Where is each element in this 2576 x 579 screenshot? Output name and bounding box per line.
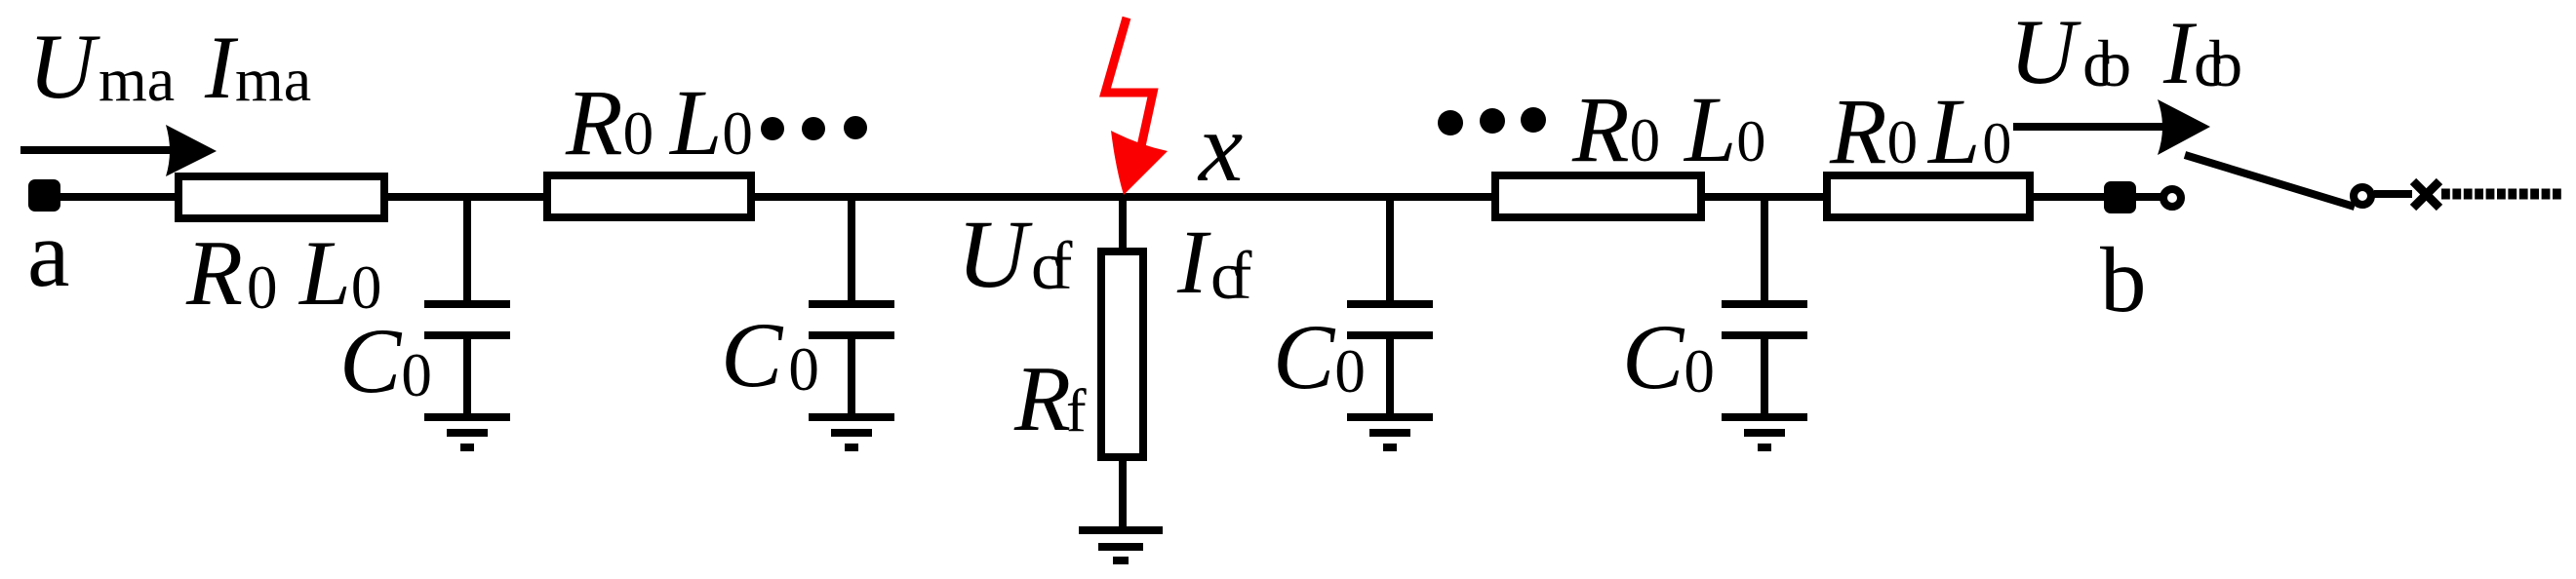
- svg-text:x: x: [1197, 93, 1243, 203]
- wire R1 to R2: [382, 193, 549, 201]
- ground Gf: [1079, 530, 1163, 560]
- switch throw circle (right): [2354, 187, 2371, 205]
- svg-text:ma: ma: [99, 45, 175, 114]
- svg-text:a: a: [27, 202, 70, 307]
- svg-text:C0: C0: [339, 309, 432, 412]
- wire Rf to ground: [1119, 453, 1127, 530]
- capacitor C4: [1722, 193, 1807, 417]
- switch blade: [2185, 155, 2355, 207]
- dashed line to edge: [2441, 189, 2562, 200]
- resistor R0L0 #4: [1827, 175, 2030, 217]
- svg-text:C0: C0: [1622, 305, 1715, 408]
- ellipsis dots left: [761, 116, 867, 140]
- svg-text:U: U: [957, 200, 1033, 308]
- terminal b: [2104, 181, 2136, 213]
- svg-text:L0: L0: [1683, 77, 1765, 181]
- wire b to switch: [2133, 193, 2163, 201]
- ground G3: [1347, 417, 1433, 447]
- wire a to R1: [59, 193, 180, 201]
- svg-text:R0: R0: [185, 221, 278, 325]
- ground G4: [1722, 417, 1807, 447]
- svg-text:ma: ma: [235, 45, 311, 114]
- svg-text:C0: C0: [1273, 305, 1366, 408]
- arrow Ucb Icb: [2013, 99, 2210, 155]
- svg-text:R0: R0: [565, 70, 654, 174]
- terminal a: [28, 179, 60, 212]
- ground G1: [424, 417, 510, 447]
- svg-text:cb: cb: [2082, 26, 2129, 100]
- capacitor C3: [1347, 193, 1433, 417]
- svg-text:U: U: [28, 15, 100, 118]
- svg-text:I: I: [2162, 3, 2198, 102]
- lightning bolt (fault): [1105, 18, 1168, 195]
- svg-text:C0: C0: [721, 303, 819, 406]
- ellipsis dots right: [1438, 107, 1546, 135]
- svg-text:I: I: [1176, 212, 1211, 313]
- resistor R0L0 #1: [178, 176, 384, 218]
- svg-text:f: f: [1066, 378, 1087, 444]
- svg-text:cf: cf: [1031, 229, 1073, 304]
- wire R3 to R4: [1699, 193, 1829, 201]
- capacitor C2: [809, 193, 894, 417]
- resistor R0L0 #3: [1495, 175, 1701, 217]
- capacitor C1: [424, 193, 510, 417]
- svg-text:U: U: [2009, 0, 2081, 103]
- wire R4 to b: [2028, 193, 2107, 201]
- svg-text:I: I: [204, 18, 239, 117]
- svg-text:R0: R0: [1571, 77, 1660, 181]
- svg-text:cb: cb: [2194, 26, 2240, 100]
- fault node wire down: [1119, 197, 1127, 255]
- X mark: [2413, 181, 2439, 208]
- svg-text:R0: R0: [1829, 79, 1918, 183]
- wire circle to X: [2374, 190, 2412, 198]
- arrow Uma Ima: [20, 125, 217, 176]
- svg-text:b: b: [2100, 228, 2147, 331]
- svg-text:L0: L0: [668, 70, 753, 174]
- ground G2: [809, 417, 894, 447]
- resistor R0L0 #2: [547, 175, 751, 217]
- svg-text:R: R: [1013, 347, 1071, 450]
- svg-text:cf: cf: [1210, 239, 1252, 314]
- svg-text:L0: L0: [1926, 79, 2011, 183]
- resistor Rf: [1101, 251, 1143, 457]
- wire R2 to R3 (through fault node): [749, 193, 1497, 201]
- switch pole circle (left): [2163, 189, 2181, 207]
